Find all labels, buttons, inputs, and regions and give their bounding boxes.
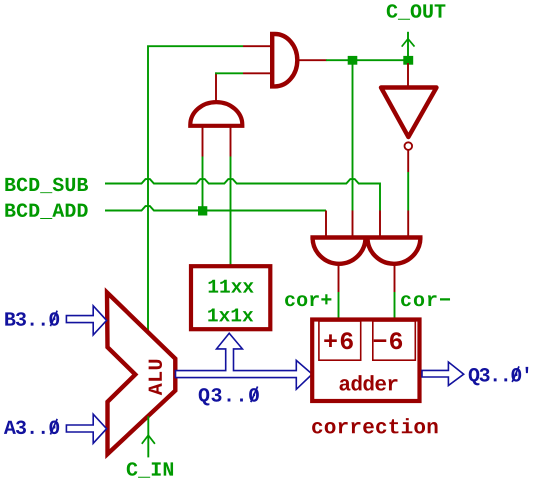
bus Q3..0 from ALU with branch to U4 and arrowheads: [176, 333, 313, 389]
BCD_SUB label: [5, 178, 88, 194]
C_IN arrowhead: [142, 435, 155, 444]
inverter U3: [381, 88, 437, 138]
dome and gate U2: [190, 102, 242, 126]
pin into cor- gate: [407, 211, 409, 237]
decode box U4: [191, 266, 270, 329]
adder correction box U6: [312, 320, 419, 402]
+6 sub-box: [319, 321, 361, 360]
U4 label 11xx: [209, 280, 254, 293]
pin into cor+ gate: [352, 211, 354, 237]
A3..0 input arrow: [66, 414, 106, 443]
and gate U1 pin 1: [243, 45, 271, 47]
wire BCD_SUB with hops, corner down to cor- gate: [105, 179, 380, 210]
pin dome U2 output: [215, 72, 217, 100]
ALU U5 body: [107, 293, 175, 455]
wire BCD_ADD with hop: [105, 206, 326, 210]
C_IN label: [127, 462, 173, 478]
wire junction J1 down to cor+ gate: [352, 62, 354, 211]
-6 sub-box: [373, 321, 416, 360]
-6 label: [374, 332, 402, 349]
C_OUT label: [387, 4, 446, 20]
Q3..0 label: [199, 388, 259, 405]
adder label: [339, 375, 397, 390]
pin BCD_SUB into cor- gate: [379, 211, 381, 237]
cor- label: [401, 295, 450, 306]
cor+ output pin: [338, 265, 340, 293]
C_OUT arrowhead: [402, 39, 415, 47]
B3..0 label: [5, 312, 59, 326]
wire ALU carry-out to AND U1 input 1: [148, 46, 243, 332]
cor+ label: [285, 294, 331, 306]
and gate U1 pin 2: [243, 72, 271, 74]
and gate cor- (bowl): [368, 238, 421, 264]
B3..0 input arrow: [66, 306, 106, 335]
C_IN wire stem: [147, 416, 149, 457]
and gate U1 output pin: [297, 59, 326, 61]
wire dome U2 output to AND U1 input 2: [215, 72, 243, 74]
wire cor+ to adder: [338, 292, 340, 319]
dome and gate U2 input pin 2: [230, 127, 232, 157]
U4 label 1x1x: [208, 309, 253, 322]
junction J2: [403, 56, 413, 65]
junction J3 on BCD_ADD: [198, 206, 207, 215]
cor- output pin: [394, 265, 396, 293]
BCD_ADD label: [5, 203, 87, 219]
dome and gate U2 input pin 1: [202, 127, 204, 157]
wire U2 pin2 to 11xx box: [230, 157, 232, 265]
inverter U3 input pin: [407, 63, 409, 86]
wire inverter output: [407, 172, 409, 211]
A3..0 label: [4, 421, 59, 435]
wire AND U1 output to C_OUT node: [326, 59, 404, 61]
pin BCD_ADD into cor+ gate: [325, 211, 327, 237]
ALU label: [149, 360, 162, 395]
inverter U3 output pin: [407, 151, 409, 173]
wire C_OUT stem: [407, 32, 409, 56]
output arrow Q3..0': [422, 362, 464, 386]
and gate U1: [272, 34, 297, 86]
cor gates input bar: [310, 235, 422, 239]
correction label: [312, 418, 437, 433]
Q3..0' label: [469, 367, 529, 385]
wire U2 pin1 to BCD_ADD junction: [202, 157, 204, 208]
wire cor- to adder: [394, 292, 396, 319]
inverter U3 bubble: [405, 142, 413, 150]
+6 label: [324, 332, 353, 349]
junction J1: [348, 56, 358, 65]
and gate cor+ (bowl): [313, 238, 366, 264]
